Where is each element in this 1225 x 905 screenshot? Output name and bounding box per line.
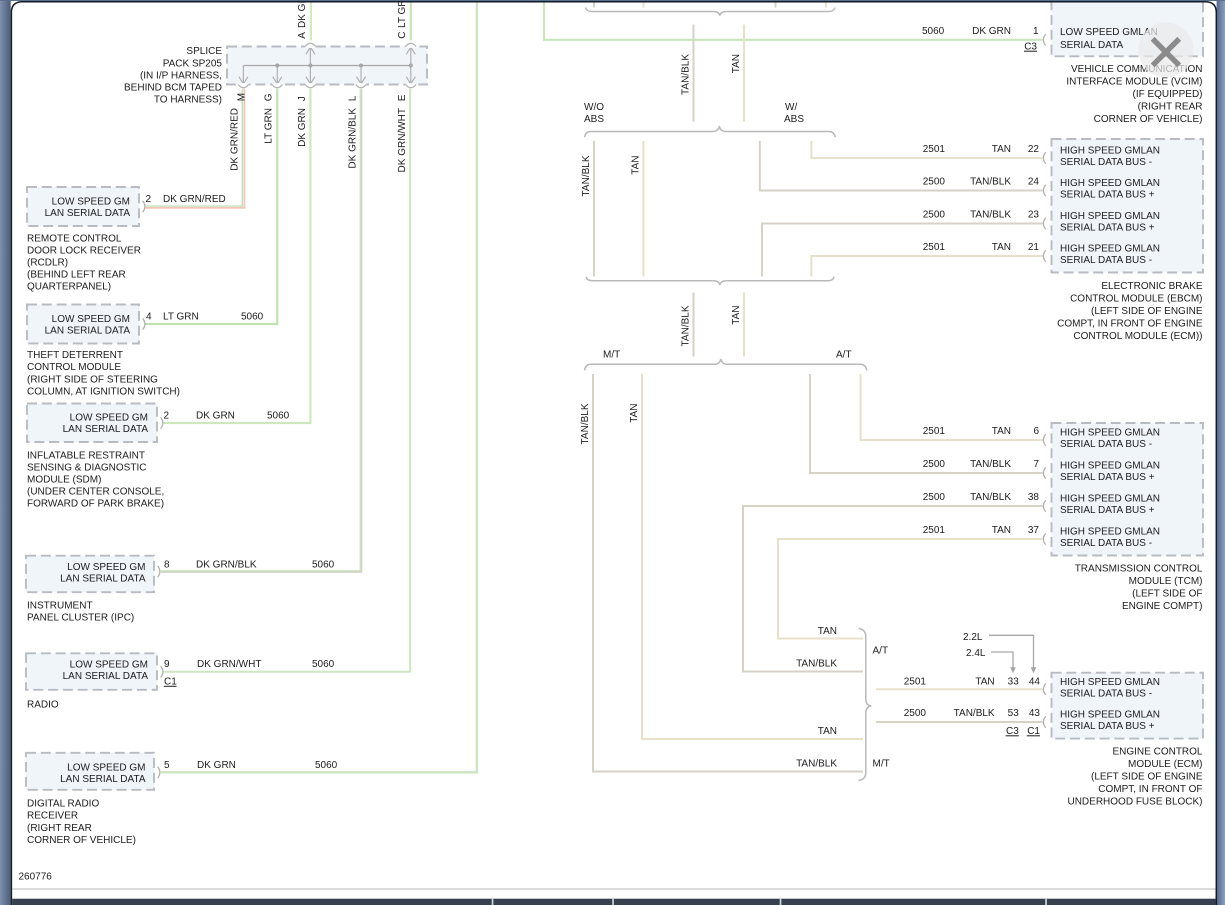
svg-text:(IF EQUIPPED): (IF EQUIPPED) (1132, 89, 1202, 100)
svg-text:THEFT DETERRENT: THEFT DETERRENT (27, 350, 123, 361)
svg-text:2501: 2501 (904, 676, 927, 687)
svg-text:SERIAL DATA BUS -: SERIAL DATA BUS - (1060, 157, 1152, 168)
svg-text:SERIAL DATA BUS -: SERIAL DATA BUS - (1060, 439, 1152, 450)
svg-text:37: 37 (1028, 525, 1040, 536)
svg-text:21: 21 (1028, 242, 1040, 253)
wire TAN/BLK W/O ABS (593, 141, 595, 277)
terminal G label (264, 93, 275, 143)
svg-text:LAN SERIAL DATA: LAN SERIAL DATA (45, 325, 131, 336)
svg-text:5060: 5060 (267, 411, 290, 422)
modal footer divider line (12, 888, 1215, 890)
svg-text:DK GRN: DK GRN (297, 0, 308, 28)
SDM pin 2 row (164, 411, 290, 422)
svg-text:DIGITAL RADIO: DIGITAL RADIO (27, 799, 99, 810)
wire TAN W/O ABS (643, 141, 645, 277)
svg-text:LAN SERIAL DATA: LAN SERIAL DATA (63, 424, 149, 435)
svg-text:SERIAL DATA BUS +: SERIAL DATA BUS + (1060, 505, 1155, 516)
svg-text:8: 8 (164, 560, 170, 571)
svg-text:LOW SPEED GM: LOW SPEED GM (70, 660, 148, 671)
wire E DK GRN/WHT (164, 89, 411, 672)
svg-text:SERIAL DATA BUS -: SERIAL DATA BUS - (1060, 688, 1152, 699)
svg-text:38: 38 (1028, 492, 1040, 503)
label A/T (836, 350, 852, 361)
splice internal bus (243, 65, 410, 67)
svg-text:SPLICE: SPLICE (186, 46, 222, 57)
svg-text:FORWARD OF PARK BRAKE): FORWARD OF PARK BRAKE) (27, 499, 164, 510)
theft deterrent caption (27, 350, 180, 397)
wire stub TAN top right (825, 0, 827, 8)
svg-text:LT GRN: LT GRN (264, 108, 275, 144)
svg-text:DOOR LOCK RECEIVER: DOOR LOCK RECEIVER (27, 246, 141, 257)
svg-text:(BEHIND LEFT REAR: (BEHIND LEFT REAR (27, 270, 126, 281)
svg-text:LAN SERIAL DATA: LAN SERIAL DATA (63, 671, 149, 682)
page left sidebar (0, 0, 11, 905)
svg-text:(RCDLR): (RCDLR) (27, 258, 68, 269)
wire G LT GRN (146, 89, 278, 324)
svg-text:E: E (397, 94, 408, 101)
connector box radio low speed (26, 653, 163, 690)
wire TAN M/T branch (642, 374, 863, 739)
svg-text:LOW SPEED GM: LOW SPEED GM (52, 196, 130, 207)
diagram number 260776 (19, 872, 53, 883)
svg-text:PANEL CLUSTER (IPC): PANEL CLUSTER (IPC) (27, 613, 134, 624)
page right sidebar (1217, 0, 1225, 905)
label TAN (A/T to ECM) (818, 626, 837, 637)
svg-text:53: 53 (1008, 708, 1020, 719)
TCM caption (1075, 564, 1203, 613)
svg-text:TAN: TAN (630, 156, 641, 175)
svg-text:DK GRN: DK GRN (196, 411, 235, 422)
ECM caption (1067, 747, 1202, 808)
splice junction dots (275, 64, 413, 68)
svg-text:TAN/BLK: TAN/BLK (796, 758, 837, 769)
EBCM caption (1057, 281, 1203, 342)
svg-text:(IN I/P HARNESS,: (IN I/P HARNESS, (140, 71, 222, 82)
svg-text:A: A (297, 32, 308, 39)
connector box TCM high speed (1043, 423, 1203, 556)
terminal E label (397, 94, 408, 172)
svg-text:DK GRN/BLK: DK GRN/BLK (196, 560, 257, 571)
svg-text:TAN/BLK: TAN/BLK (680, 54, 691, 95)
wire DK GRN 5060 to VCIM (544, 0, 1043, 40)
connector box EBCM high speed (1043, 139, 1203, 273)
wire L DK GRN/BLK (161, 89, 362, 572)
wire C LT GRN (up from splice) (410, 0, 412, 41)
wire TAN 2501 to ECM (876, 688, 1043, 690)
SDM caption (27, 451, 164, 510)
svg-text:SERIAL DATA BUS +: SERIAL DATA BUS + (1060, 190, 1155, 201)
label M/T (603, 350, 620, 361)
svg-text:CONTROL MODULE: CONTROL MODULE (27, 362, 121, 373)
label W/ ABS (784, 102, 804, 125)
svg-text:(LEFT SIDE OF ENGINE: (LEFT SIDE OF ENGINE (1091, 772, 1203, 783)
TCM pin 38 row (923, 492, 1040, 503)
label TAN/BLK (mid bundle) (680, 305, 691, 346)
svg-text:2501: 2501 (923, 242, 946, 253)
svg-text:HIGH SPEED GMLAN: HIGH SPEED GMLAN (1060, 710, 1160, 721)
wire stub TAN/BLK top left (593, 0, 595, 8)
wire TAN/BLK EBCM pin 23 down (762, 224, 1043, 277)
svg-text:CORNER OF VEHICLE): CORNER OF VEHICLE) (27, 835, 136, 846)
svg-text:C3: C3 (1006, 726, 1019, 737)
svg-text:COMPT, IN FRONT OF: COMPT, IN FRONT OF (1098, 784, 1202, 795)
svg-text:TAN/BLK: TAN/BLK (580, 403, 591, 444)
connector box VCIM low speed (1043, 0, 1203, 56)
svg-text:2.2L: 2.2L (963, 632, 983, 643)
svg-text:DK GRN: DK GRN (297, 108, 308, 147)
svg-text:COLUMN, AT IGNITION SWITCH): COLUMN, AT IGNITION SWITCH) (27, 386, 180, 397)
terminal L label (347, 95, 358, 168)
svg-text:LOW SPEED GM: LOW SPEED GM (67, 562, 145, 573)
svg-text:5060: 5060 (315, 760, 338, 771)
wire TAN/BLK W/ ABS to EBCM pin 24 (760, 141, 1043, 191)
wire TAN TCM pin 37 down to ECM (778, 539, 1043, 639)
svg-text:ENGINE COMPT): ENGINE COMPT) (1122, 601, 1203, 612)
svg-text:RADIO: RADIO (27, 700, 59, 711)
svg-text:INTERFACE MODULE (VCIM): INTERFACE MODULE (VCIM) (1066, 77, 1202, 88)
svg-text:TAN/BLK: TAN/BLK (954, 708, 995, 719)
svg-text:HIGH SPEED GMLAN: HIGH SPEED GMLAN (1060, 178, 1160, 189)
svg-text:A/T: A/T (873, 646, 889, 657)
svg-text:2500: 2500 (904, 708, 927, 719)
svg-text:TAN: TAN (629, 404, 640, 423)
svg-text:UNDERHOOD FUSE BLOCK): UNDERHOOD FUSE BLOCK) (1067, 797, 1202, 808)
svg-text:DK GRN/BLK: DK GRN/BLK (347, 108, 358, 169)
label 2.4L with arrow to pin 33 (966, 648, 1016, 673)
svg-text:SERIAL DATA BUS +: SERIAL DATA BUS + (1060, 721, 1155, 732)
svg-text:(LEFT SIDE OF ENGINE: (LEFT SIDE OF ENGINE (1091, 306, 1203, 317)
svg-text:TAN: TAN (818, 726, 837, 737)
svg-text:(LEFT SIDE OF: (LEFT SIDE OF (1132, 589, 1202, 600)
svg-text:LOW SPEED GM: LOW SPEED GM (52, 314, 130, 325)
svg-text:W/: W/ (785, 102, 797, 113)
svg-text:2500: 2500 (923, 492, 946, 503)
svg-text:HIGH SPEED GMLAN: HIGH SPEED GMLAN (1060, 527, 1160, 538)
svg-text:2500: 2500 (923, 459, 946, 470)
terminal A label (297, 0, 308, 39)
svg-text:SERIAL DATA BUS -: SERIAL DATA BUS - (1060, 255, 1152, 266)
svg-text:5: 5 (164, 760, 170, 771)
label TAN (M/T branch) (629, 404, 640, 423)
label TAN/BLK (M/T branch) (580, 403, 591, 444)
svg-text:DK GRN: DK GRN (197, 760, 236, 771)
label TAN/BLK (A/T to ECM) (796, 658, 837, 669)
svg-text:5060: 5060 (922, 26, 945, 37)
svg-text:7: 7 (1033, 459, 1039, 470)
svg-text:INFLATABLE RESTRAINT: INFLATABLE RESTRAINT (27, 451, 145, 462)
svg-text:(RIGHT REAR: (RIGHT REAR (1138, 102, 1203, 113)
svg-text:LAN SERIAL DATA: LAN SERIAL DATA (60, 774, 146, 785)
svg-text:DK GRN/WHT: DK GRN/WHT (397, 108, 408, 172)
svg-text:MODULE (ECM): MODULE (ECM) (1128, 759, 1202, 770)
svg-text:2.4L: 2.4L (966, 648, 986, 659)
VCIM caption (1066, 64, 1202, 125)
svg-text:2500: 2500 (923, 176, 946, 187)
svg-text:INSTRUMENT: INSTRUMENT (27, 601, 93, 612)
svg-text:TAN: TAN (992, 242, 1011, 253)
wire TAN/BLK A/T branch to TCM pin 7 (810, 374, 1043, 473)
svg-text:MODULE (SDM): MODULE (SDM) (27, 475, 101, 486)
wire A DK GRN (up from splice) (310, 0, 312, 41)
svg-text:C: C (397, 32, 408, 39)
TCM pin 7 row (923, 459, 1040, 470)
digital radio receiver pin 5 row (164, 760, 338, 771)
RCDLR pin 2 row (146, 194, 226, 205)
ECM pins 53 43 row (904, 708, 1041, 719)
svg-text:5060: 5060 (241, 312, 264, 323)
svg-text:C3: C3 (1024, 41, 1037, 52)
ECM connectors C3 C1 row (1006, 726, 1041, 737)
wire TAN/BLK TCM pin 38 down to ECM (743, 506, 1043, 672)
svg-text:33: 33 (1008, 676, 1020, 687)
svg-text:G: G (264, 93, 275, 101)
svg-text:LOW SPEED GM: LOW SPEED GM (67, 763, 145, 774)
svg-text:QUARTERPANEL): QUARTERPANEL) (27, 282, 111, 293)
TCM pin 6 row (923, 426, 1040, 437)
splice border bumps bottom (238, 83, 416, 88)
svg-text:A/T: A/T (836, 350, 852, 361)
svg-text:M/T: M/T (873, 758, 890, 769)
terminal M label (230, 93, 248, 171)
svg-text:CORNER OF VEHICLE): CORNER OF VEHICLE) (1094, 114, 1203, 125)
EBCM pin 22 row (923, 144, 1040, 155)
svg-text:44: 44 (1029, 676, 1041, 687)
svg-text:ABS: ABS (784, 114, 804, 125)
svg-text:TRANSMISSION CONTROL: TRANSMISSION CONTROL (1075, 564, 1203, 575)
svg-text:2501: 2501 (923, 144, 946, 155)
svg-text:2500: 2500 (923, 209, 946, 220)
connector box digital radio receiver low speed (26, 753, 160, 790)
svg-text:TAN/BLK: TAN/BLK (796, 658, 837, 669)
wire TAN A/T branch to TCM pin 6 (861, 374, 1043, 440)
svg-text:COMPT, IN FRONT OF ENGINE: COMPT, IN FRONT OF ENGINE (1057, 319, 1203, 330)
harness split brace W/O-W/ ABS (585, 126, 836, 137)
svg-text:22: 22 (1028, 144, 1040, 155)
harness merge brace ECM (right pointing) (859, 629, 872, 781)
IPC pin 8 row (164, 560, 335, 571)
svg-text:HIGH SPEED GMLAN: HIGH SPEED GMLAN (1060, 494, 1160, 505)
svg-text:ENGINE CONTROL: ENGINE CONTROL (1112, 747, 1202, 758)
harness merge brace above MT-AT bundle (586, 277, 834, 285)
label A/T (ECM merge) (873, 646, 889, 657)
svg-text:TAN/BLK: TAN/BLK (970, 209, 1011, 220)
svg-text:HIGH SPEED GMLAN: HIGH SPEED GMLAN (1060, 244, 1160, 255)
svg-text:LAN SERIAL DATA: LAN SERIAL DATA (45, 208, 131, 219)
splice label (124, 46, 222, 105)
svg-text:TAN/BLK: TAN/BLK (970, 176, 1011, 187)
svg-text:2501: 2501 (923, 426, 946, 437)
EBCM pin 24 row (923, 176, 1040, 187)
svg-text:2501: 2501 (923, 525, 946, 536)
harness merge brace top (586, 8, 836, 16)
VCIM pin 1 row (922, 26, 1039, 53)
EBCM pin 21 row (923, 242, 1040, 253)
svg-text:BEHIND BCM TAPED: BEHIND BCM TAPED (124, 83, 222, 94)
terminal C label (397, 0, 408, 39)
EBCM pin 23 row (923, 209, 1040, 220)
label TAN/BLK (top bundle) (680, 54, 691, 95)
svg-text:5060: 5060 (312, 560, 335, 571)
page top strip (0, 0, 1225, 1)
label TAN (top bundle) (731, 54, 742, 73)
label TAN (M/T to ECM) (818, 726, 837, 737)
svg-text:HIGH SPEED GMLAN: HIGH SPEED GMLAN (1060, 677, 1160, 688)
label TAN (W/O ABS) (630, 156, 641, 175)
svg-text:DK GRN/WHT: DK GRN/WHT (197, 659, 261, 670)
wire DK GRN to digital radio receiver (161, 0, 477, 772)
svg-text:DK GRN/RED: DK GRN/RED (230, 108, 241, 171)
svg-text:260776: 260776 (19, 872, 53, 883)
label M/T (ECM merge) (873, 758, 890, 769)
svg-text:(RIGHT SIDE OF STEERING: (RIGHT SIDE OF STEERING (27, 374, 158, 385)
svg-text:MODULE (TCM): MODULE (TCM) (1129, 576, 1203, 587)
svg-text:SERIAL DATA BUS -: SERIAL DATA BUS - (1060, 538, 1152, 549)
svg-text:SERIAL DATA: SERIAL DATA (1060, 40, 1123, 51)
svg-text:SERIAL DATA BUS +: SERIAL DATA BUS + (1060, 472, 1155, 483)
wire TAN/BLK 2500 to ECM (876, 721, 1043, 723)
svg-text:SENSING & DIAGNOSTIC: SENSING & DIAGNOSTIC (27, 463, 146, 474)
label W/O ABS (584, 102, 604, 125)
digital radio receiver caption (27, 799, 136, 846)
svg-text:SERIAL DATA BUS +: SERIAL DATA BUS + (1060, 223, 1155, 234)
svg-text:(UNDER CENTER CONSOLE,: (UNDER CENTER CONSOLE, (27, 487, 164, 498)
label TAN/BLK (W/O ABS) (581, 155, 592, 196)
svg-text:TAN/BLK: TAN/BLK (970, 492, 1011, 503)
svg-text:CONTROL MODULE (ECM)): CONTROL MODULE (ECM)) (1073, 331, 1202, 342)
svg-text:TAN: TAN (992, 144, 1011, 155)
svg-text:4: 4 (146, 312, 152, 323)
svg-text:TAN: TAN (992, 525, 1011, 536)
close button (1138, 23, 1193, 78)
connector box ECM high speed (1043, 673, 1203, 739)
wire TAN EBCM pin 21 down (811, 256, 1042, 277)
svg-text:LT GRN: LT GRN (163, 312, 199, 323)
splice pack SP205 box (227, 47, 427, 85)
svg-text:9: 9 (164, 659, 170, 670)
svg-text:RECEIVER: RECEIVER (27, 811, 78, 822)
wire bundle TAN/BLK (top) (693, 25, 695, 122)
svg-text:HIGH SPEED GMLAN: HIGH SPEED GMLAN (1060, 211, 1160, 222)
svg-text:LOW SPEED GM: LOW SPEED GM (70, 413, 148, 424)
modal footer dark bar (12, 899, 1215, 905)
svg-text:TAN: TAN (818, 626, 837, 637)
svg-text:TAN: TAN (992, 426, 1011, 437)
connector box theft deterrent low speed (27, 305, 145, 344)
label TAN (mid bundle) (731, 306, 742, 325)
svg-text:M/T: M/T (603, 350, 620, 361)
svg-text:CONTROL MODULE (EBCM): CONTROL MODULE (EBCM) (1070, 294, 1202, 305)
svg-text:TAN/BLK: TAN/BLK (970, 459, 1011, 470)
radio pin 9 row (164, 659, 335, 688)
svg-text:J: J (297, 96, 308, 101)
connector box SDM low speed (27, 404, 163, 443)
terminal J label (297, 96, 308, 147)
label TAN/BLK (M/T to ECM) (796, 758, 837, 769)
ECM pins 33 44 row (904, 676, 1041, 687)
radio caption (27, 700, 59, 711)
splice internal drops and arrowheads (239, 47, 415, 85)
svg-text:ABS: ABS (584, 114, 604, 125)
svg-text:1: 1 (1033, 26, 1039, 37)
svg-text:W/O: W/O (584, 102, 604, 113)
svg-text:LAN SERIAL DATA: LAN SERIAL DATA (60, 574, 146, 585)
harness split brace MT-AT (585, 359, 867, 371)
svg-text:LT GRN: LT GRN (397, 0, 408, 28)
svg-text:(RIGHT REAR: (RIGHT REAR (27, 823, 92, 834)
connector box RCDLR low speed (27, 187, 145, 226)
wire M DK GRN/RED (146, 89, 245, 208)
svg-text:L: L (347, 95, 358, 101)
svg-text:ELECTRONIC BRAKE: ELECTRONIC BRAKE (1101, 281, 1202, 292)
svg-text:5060: 5060 (312, 659, 335, 670)
svg-text:24: 24 (1028, 176, 1040, 187)
TCM pin 37 row (923, 525, 1040, 536)
svg-text:2: 2 (164, 411, 170, 422)
RCDLR caption (27, 234, 141, 293)
wire TAN/BLK M/T branch (593, 374, 863, 772)
svg-text:TAN: TAN (731, 54, 742, 73)
svg-text:TAN: TAN (975, 676, 994, 687)
svg-text:REMOTE CONTROL: REMOTE CONTROL (27, 234, 122, 245)
svg-text:M: M (237, 93, 248, 101)
wire stub TAN top left (643, 0, 645, 8)
wire J DK GRN (164, 89, 311, 423)
wire stub TAN/BLK top right (775, 0, 777, 8)
theft deterrent pin 4 row (146, 312, 264, 323)
IPC caption (27, 601, 134, 624)
svg-text:HIGH SPEED GMLAN: HIGH SPEED GMLAN (1060, 146, 1160, 157)
wire bundle TAN (top) (743, 25, 745, 122)
svg-text:23: 23 (1028, 209, 1040, 220)
wire bundle TAN/BLK (mid) (693, 293, 695, 357)
wire TAN W/ ABS to EBCM pin 22 (811, 141, 1042, 158)
svg-text:2: 2 (146, 194, 152, 205)
wire bundle TAN (mid) (743, 293, 745, 357)
splice border bumps top (305, 43, 416, 48)
svg-text:TAN: TAN (731, 306, 742, 325)
svg-text:C1: C1 (1027, 726, 1040, 737)
svg-text:43: 43 (1029, 708, 1041, 719)
svg-text:DK GRN: DK GRN (972, 26, 1011, 37)
svg-text:HIGH SPEED GMLAN: HIGH SPEED GMLAN (1060, 461, 1160, 472)
svg-text:TO HARNESS): TO HARNESS) (154, 95, 222, 106)
connector box IPC low speed (26, 556, 160, 593)
svg-text:TAN/BLK: TAN/BLK (680, 305, 691, 346)
svg-text:TAN/BLK: TAN/BLK (581, 155, 592, 196)
svg-text:PACK SP205: PACK SP205 (163, 58, 223, 69)
svg-text:DK GRN/RED: DK GRN/RED (163, 194, 226, 205)
label 2.2L with arrow to pin 44 (963, 632, 1036, 674)
svg-text:HIGH SPEED GMLAN: HIGH SPEED GMLAN (1060, 428, 1160, 439)
svg-text:6: 6 (1033, 426, 1039, 437)
